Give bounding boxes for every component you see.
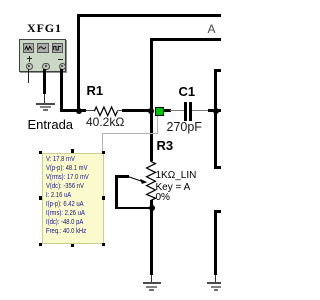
ground symbol bottom left xyxy=(143,282,161,284)
resistor R1 right lead xyxy=(117,110,122,111)
wire net A top horizontal xyxy=(77,14,221,17)
capacitor C1 value 270pF xyxy=(167,122,202,133)
node A label xyxy=(208,22,216,36)
wire from XFG1 - terminal vertical xyxy=(60,69,63,113)
XFG1 terminal - xyxy=(59,63,66,70)
wire net 2 vertical to junction xyxy=(150,38,153,112)
wire R1 to junction xyxy=(122,109,153,112)
resistor R1 zigzag xyxy=(93,104,119,118)
junction on right bracket xyxy=(213,108,219,114)
wire C1 to right bracket xyxy=(208,109,221,112)
resistor R1 left lead xyxy=(86,110,95,111)
wiper arm wire horizontal xyxy=(115,175,129,178)
probe leader line xyxy=(157,116,158,133)
wiper arrow xyxy=(126,173,150,186)
ground lead under XFG1 xyxy=(44,94,45,104)
probe green square xyxy=(155,107,163,116)
wire net 2 horizontal xyxy=(150,38,222,41)
wire stub from XFG1 + terminal xyxy=(28,69,29,83)
capacitor C1 left lead xyxy=(170,110,184,111)
wire from XFG1 common terminal xyxy=(43,69,46,95)
wire square to C1 xyxy=(163,109,171,112)
function generator XFG1 body xyxy=(19,39,67,73)
potentiometer R3 bottom lead wire xyxy=(150,200,153,209)
function generator XFG1 label xyxy=(27,21,62,36)
right bracket vertical wire xyxy=(214,69,217,169)
wire R3 to ground xyxy=(150,208,153,275)
capacitor C1 left plate xyxy=(184,102,187,121)
potentiometer R3 reference xyxy=(157,139,174,152)
ground symbol bottom right xyxy=(207,282,221,284)
right bracket top stub xyxy=(214,69,221,72)
XFG1 terminal common xyxy=(42,63,49,70)
XFG1 sine-wave button xyxy=(37,43,48,53)
wiper loop bottom wire xyxy=(115,207,152,210)
wire net A vertical drop xyxy=(77,14,80,112)
potentiometer R3 top lead wire xyxy=(150,112,153,161)
junction at loop corner xyxy=(76,108,82,114)
junction at node A drop xyxy=(148,108,154,114)
XFG1 triangle-wave button xyxy=(23,43,34,53)
measurement probe readout box xyxy=(42,153,105,244)
wire bottom segment to R1 xyxy=(60,109,86,112)
Entrada net label xyxy=(28,117,74,132)
XFG1 terminal + xyxy=(26,63,33,70)
resistor R1 value 40.2kΩ xyxy=(86,117,124,128)
potentiometer R3 percent label xyxy=(156,192,170,203)
potentiometer R3 value 1KΩ_LIN xyxy=(156,170,197,181)
ground symbol under XFG1 xyxy=(36,103,54,105)
capacitor C1 right plate xyxy=(189,102,192,121)
potentiometer R3 key label xyxy=(156,182,191,193)
potentiometer R3 zigzag xyxy=(145,160,158,202)
wiper loop left vertical wire xyxy=(115,175,118,209)
XFG1 plus marking xyxy=(27,58,32,59)
right bracket bottom stub xyxy=(214,166,221,169)
junction at R3 bottom xyxy=(149,205,155,211)
lower right vertical wire xyxy=(214,210,217,276)
resistor R1 reference xyxy=(87,84,104,97)
probe readout text xyxy=(46,155,89,236)
ground lead bottom right xyxy=(215,275,216,283)
lower right stub wire xyxy=(214,210,221,213)
capacitor C1 reference xyxy=(179,85,196,98)
ground lead bottom left xyxy=(151,275,152,283)
XFG1 minus marking xyxy=(58,59,63,60)
XFG1 square-wave button xyxy=(52,43,63,53)
selection handles of probe box xyxy=(39,151,42,154)
capacitor C1 right lead xyxy=(192,110,208,111)
